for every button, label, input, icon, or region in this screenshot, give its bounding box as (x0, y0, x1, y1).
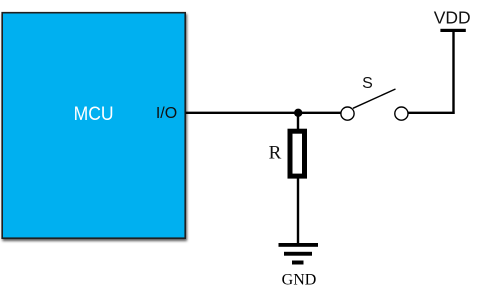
svg-text:GND: GND (282, 271, 317, 288)
svg-text:I/O: I/O (156, 105, 177, 122)
svg-text:VDD: VDD (434, 8, 471, 28)
svg-text:MCU: MCU (74, 103, 114, 125)
svg-text:S: S (362, 75, 373, 92)
svg-text:R: R (269, 143, 282, 164)
